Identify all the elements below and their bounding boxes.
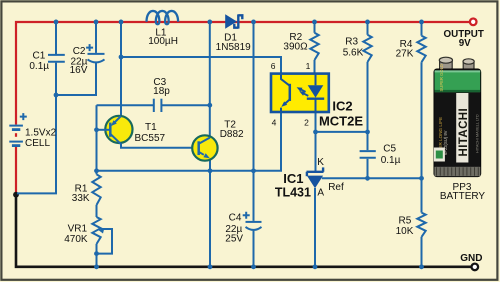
svg-text:A: A	[317, 187, 324, 198]
svg-text:D882: D882	[220, 129, 244, 140]
svg-text:C4: C4	[229, 213, 242, 224]
svg-text:HITACHI MAXELL LTD: HITACHI MAXELL LTD	[476, 114, 480, 153]
svg-text:5.6K: 5.6K	[343, 48, 364, 59]
svg-text:0.1µ: 0.1µ	[381, 155, 401, 166]
svg-text:1: 1	[306, 61, 311, 71]
svg-text:1N5819: 1N5819	[216, 42, 251, 53]
svg-text:2: 2	[304, 118, 309, 128]
svg-text:10K: 10K	[396, 226, 414, 237]
svg-text:100µH: 100µH	[148, 36, 178, 47]
svg-text:IC2: IC2	[332, 99, 352, 114]
svg-text:VR1: VR1	[68, 224, 88, 235]
svg-text:GND: GND	[460, 253, 482, 264]
svg-text:C2: C2	[73, 46, 86, 57]
svg-text:TL431: TL431	[275, 185, 311, 199]
svg-text:R5: R5	[399, 216, 412, 227]
svg-text:T1: T1	[145, 122, 157, 133]
svg-text:390Ω: 390Ω	[283, 41, 308, 52]
svg-text:K: K	[317, 157, 324, 168]
svg-text:IC1: IC1	[283, 171, 303, 186]
svg-text:Ref: Ref	[328, 182, 344, 193]
svg-text:BC557: BC557	[135, 133, 166, 144]
svg-text:0.1µ: 0.1µ	[29, 61, 49, 72]
svg-text:4: 4	[272, 118, 277, 128]
svg-text:CELL: CELL	[25, 138, 50, 149]
svg-text:33K: 33K	[72, 193, 90, 204]
svg-text:R3: R3	[345, 37, 358, 48]
svg-text:HITACHI: HITACHI	[458, 108, 470, 157]
svg-text:18p: 18p	[153, 86, 170, 97]
svg-text:MCT2E: MCT2E	[319, 113, 363, 128]
svg-text:C5: C5	[383, 143, 396, 154]
svg-text:BATTERY: BATTERY	[440, 191, 486, 202]
svg-text:16V: 16V	[70, 65, 88, 76]
svg-text:6: 6	[271, 61, 276, 71]
svg-text:9V: 9V	[459, 38, 471, 49]
svg-text:C1: C1	[33, 51, 46, 62]
svg-text:25V: 25V	[225, 233, 243, 244]
svg-text:470K: 470K	[64, 234, 88, 245]
svg-text:27K: 27K	[396, 48, 414, 59]
svg-text:SUPER GOLD: SUPER GOLD	[439, 64, 444, 91]
